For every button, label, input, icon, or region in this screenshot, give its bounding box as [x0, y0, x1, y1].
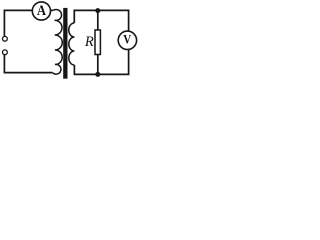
voltmeter V: circle — [118, 31, 136, 49]
wire: resistor branch upper — [97, 10, 99, 30]
ammeter A: circle — [32, 2, 50, 20]
resistor R: box — [95, 30, 100, 55]
wire: ammeter to primary coil stub — [51, 9, 54, 11]
svg-text:A: A — [37, 2, 46, 18]
wire: resistor branch lower — [97, 55, 99, 75]
junction dot bottom (node) — [95, 72, 100, 77]
wire: left vertical lower + bottom-left horizontal — [4, 55, 52, 73]
transformer secondary coil L2 — [69, 23, 75, 65]
terminal circle upper (open input terminal) — [3, 36, 8, 41]
svg-text:R: R — [84, 34, 94, 50]
wire: top-left horizontal + left vertical upper — [4, 10, 32, 36]
junction dot top (node) — [95, 8, 100, 13]
background — [0, 0, 138, 81]
wire: secondary top lead + right-loop top wire + right vertical upper — [74, 10, 128, 31]
transformer primary coil L1 — [53, 9, 63, 74]
wire: right vertical lower + right-loop bottom wire + secondary bottom lead — [74, 49, 128, 74]
terminal circle lower (open input terminal) — [3, 50, 8, 55]
transformer core bar — [63, 8, 67, 79]
svg-text:V: V — [123, 33, 131, 47]
